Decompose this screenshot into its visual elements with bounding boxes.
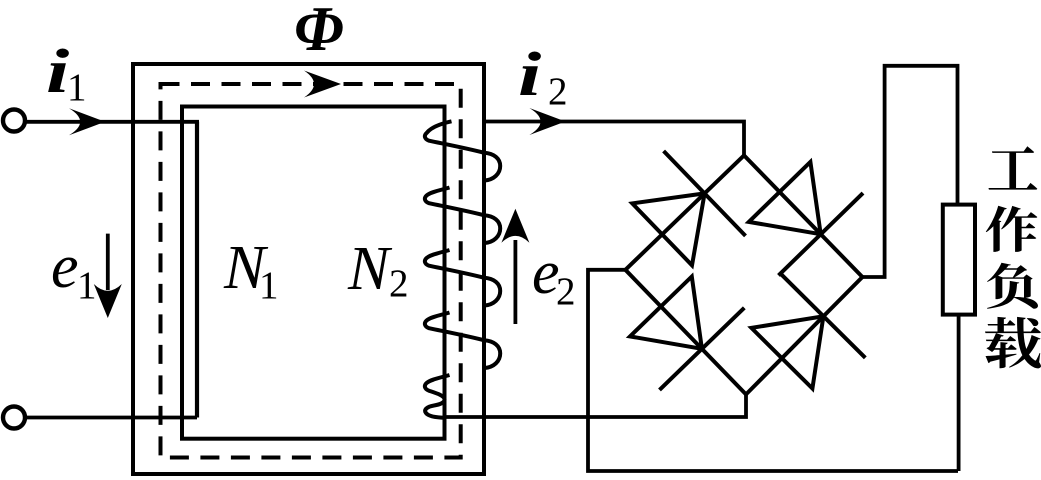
- svg-text:1: 1: [77, 264, 97, 307]
- wire primary bottom: [25, 416, 197, 420]
- arrow e2 (emf direction): [514, 240, 518, 324]
- svg-text:e: e: [51, 233, 79, 301]
- label i1: [46, 36, 87, 109]
- diode D1: [625, 151, 745, 270]
- svg-text:1: 1: [259, 264, 279, 307]
- wire secondary top (i2): [484, 122, 744, 156]
- arrow i2: [529, 108, 565, 135]
- flux arrow: [304, 71, 341, 98]
- diode D3: [625, 270, 746, 395]
- arrow i1: [69, 108, 105, 135]
- label N2: [347, 235, 409, 305]
- wire load bottom: [957, 315, 961, 471]
- svg-text:2: 2: [548, 70, 568, 113]
- primary winding N1: [195, 122, 199, 418]
- svg-text:1: 1: [67, 66, 87, 109]
- diode D2: [744, 155, 863, 277]
- svg-text:2: 2: [556, 270, 576, 313]
- svg-text:Φ: Φ: [294, 0, 344, 64]
- label N1: [223, 234, 279, 307]
- diode D4: [746, 275, 865, 395]
- svg-text:2: 2: [389, 262, 409, 305]
- wire secondary bottom: [445, 394, 746, 417]
- flux path dashed: [161, 84, 461, 458]
- terminal bottom-left: [3, 407, 25, 429]
- label i2: [518, 39, 568, 113]
- arrow e1 (emf direction): [106, 234, 110, 290]
- label e1: [51, 233, 97, 307]
- svg-text:N: N: [347, 235, 393, 303]
- core inner window: [182, 107, 445, 439]
- transformer core outer: [133, 64, 484, 474]
- secondary winding N2 (coil): [425, 121, 500, 417]
- wire DC positive (right node to load top): [862, 66, 957, 277]
- svg-text:i: i: [518, 39, 542, 108]
- label 工作负载 (load): [985, 146, 1041, 368]
- wire primary top: [25, 120, 199, 124]
- wire DC negative (left node to bottom rail): [588, 270, 958, 471]
- load resistor: [943, 205, 975, 315]
- terminal top-left: [3, 110, 25, 132]
- label e2: [532, 239, 576, 313]
